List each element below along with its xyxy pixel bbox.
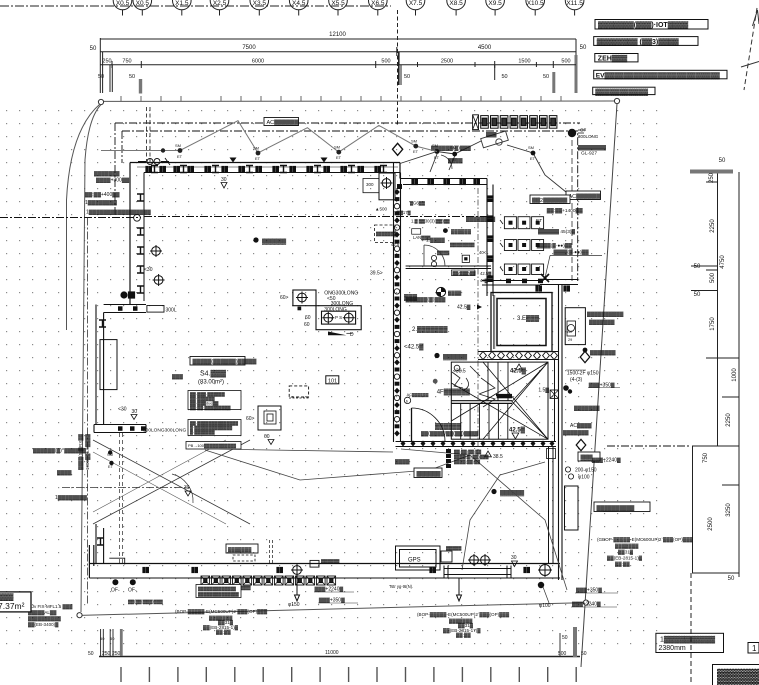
svg-text:OF-: OF- [111,588,120,594]
upper flight treads [488,362,508,401]
eave dash-dot outline outer [115,122,580,124]
front site line (top, with survey ticks) [101,100,617,102]
ceiling-mount dots [253,237,525,496]
room number tag 101 [326,376,339,385]
AC pipe label box (left) [264,118,299,127]
svg-text:50: 50 [719,158,726,164]
svg-text:X0.5: X0.5 [136,0,150,7]
svg-text:ET: ET [336,155,342,160]
svg-text:1▓▓▓▓▓▓▓▓: 1▓▓▓▓▓▓▓▓ [85,199,117,206]
grid bubble X11.5 [565,0,584,16]
svg-text:3250: 3250 [726,503,732,517]
svg-text:250: 250 [102,59,111,65]
svg-text:X6.5: X6.5 [371,0,385,7]
south site boundary [80,603,586,616]
dim extension verticals left [99,38,101,93]
svg-text:▓▓▓+2240▓: ▓▓▓+2240▓ [592,457,621,464]
ceiling dot grid field [4,110,668,655]
svg-text:4F▓▓▓▓▓▓: 4F▓▓▓▓▓▓ [437,389,471,396]
grid reference dash-dot line [0,5,391,7]
svg-text:ET: ET [413,149,419,154]
svg-text:▓▓▓▓(▓·●●)▓▓: ▓▓▓▓(▓·●●)▓▓ [537,242,573,249]
right dim vertical inner lower [692,446,694,573]
svg-text:(4-(3): (4-(3) [570,377,583,383]
svg-text:▓▓2▓▓▓▓▓▓: ▓▓2▓▓▓▓▓▓ [532,197,568,204]
svg-text:2250: 2250 [726,413,732,427]
svg-text:X5.5: X5.5 [331,0,345,7]
svg-text:2500: 2500 [441,59,453,65]
svg-text:▓▓(▓▓▓▓/▓▓(▓▓)▓▓▓▓: ▓▓(▓▓▓▓/▓▓(▓▓)▓▓▓▓ [421,430,479,437]
right column annotations [538,311,623,437]
stair up-direction diagonals [451,362,548,439]
dim extension vertical right (gray heavy) [575,39,577,55]
svg-text:50: 50 [90,46,97,52]
svg-text:300LONG300LONG: 300LONG300LONG [143,428,186,434]
sash spec group 2 [417,612,510,639]
outdoor unit rect right [565,486,579,530]
AC conduit zigzag [101,121,437,153]
svg-text:▓▓▓▓: ▓▓▓▓ [57,469,72,476]
svg-text:300LONG: 300LONG [578,134,599,139]
svg-text:φ100: φ100 [539,603,551,609]
insulated wall w/ diamonds (stair vs EV) [478,352,558,360]
svg-text:SM: SM [432,143,438,148]
svg-text:50: 50 [404,74,410,80]
porch door panel + wires [400,131,566,192]
svg-text:▓▓▓▓▓▓(▓)▓▓▓: ▓▓▓▓▓▓(▓)▓▓▓ [406,296,446,303]
east site boundary (slanted) [581,104,617,667]
grid bubble X5.5 [329,0,348,16]
svg-text:2380mm: 2380mm [659,645,686,652]
svg-text:GPS: GPS [408,558,421,564]
svg-text:101: 101 [328,378,337,384]
svg-text:X11.5: X11.5 [566,0,583,7]
corridor demising wall (x393-401) [394,163,401,443]
svg-text:1▓▓▓▓▓▓▓▓▓▓▓▓▓▓▓▓▓: 1▓▓▓▓▓▓▓▓▓▓▓▓▓▓▓▓▓ [86,209,151,216]
OF drains at south wall [112,579,135,585]
svg-text:300LONG: 300LONG [331,301,354,307]
svg-text:1.5▓: 1.5▓ [538,387,549,394]
svg-text:X4.5: X4.5 [292,0,306,7]
svg-text:7500: 7500 [242,45,256,51]
stair labels [404,294,527,439]
svg-text:EV▓▓▓▓▓▓▓▓▓▓▓▓▓▓▓▓▓▓▓▓▓▓▓▓: EV▓▓▓▓▓▓▓▓▓▓▓▓▓▓▓▓▓▓▓▓▓▓▓▓ [596,71,720,79]
dim line 12100 [100,38,576,40]
porch entry diamond [393,143,403,155]
fan coil cluster at demising wall top [363,173,395,200]
svg-text:500: 500 [381,59,390,65]
svg-text:42.5▓: 42.5▓ [510,368,527,375]
svg-text:50: 50 [694,292,701,298]
dashed ceiling access [289,386,308,397]
svg-text:50: 50 [694,264,701,270]
svg-text:42.5: 42.5 [391,242,400,247]
stair nosing dark bar [497,396,512,399]
svg-text:1500: 1500 [518,59,530,65]
svg-text:▓▓▓+2240▓: ▓▓▓+2240▓ [315,586,344,593]
bike rack label box [530,195,570,204]
svg-text:▓▓▓▓▓▓: ▓▓▓▓▓▓ [500,490,525,497]
svg-text:<42.5▓: <42.5▓ [404,344,424,351]
svg-text:50: 50 [581,651,587,657]
left wall jog at y304 [104,305,146,313]
svg-text:▓▓▓▓▓▓▓▓▓▓: ▓▓▓▓▓▓▓▓▓▓ [587,311,624,318]
pump closet [565,308,585,345]
svg-text:ET: ET [434,155,440,160]
pipe chase below corridor [547,447,556,564]
svg-text:▓▓▓▓▓▓: ▓▓▓▓▓▓ [262,238,287,245]
fire spread dashed across bottom [62,487,190,489]
svg-text:▓▓▓: ▓▓▓ [0,593,14,601]
grid bubble X4.5 [289,0,308,16]
svg-text:39.5>: 39.5> [370,271,383,277]
svg-text:▓▓▓▓▓▓▓▓▓▓: ▓▓▓▓▓▓▓▓▓▓ [597,505,635,512]
svg-text:42.5▓: 42.5▓ [457,304,471,311]
droppers below dim line [109,65,111,92]
svg-text:200-φ150: 200-φ150 [575,468,597,474]
right dim labels (rotated) [694,158,738,582]
svg-text:SM: SM [175,143,181,148]
north arrow / benchmark diagonal top-right [741,8,759,90]
bottom exterior wall [89,563,560,565]
svg-text:X8.5: X8.5 [449,0,463,7]
grid bubble X7.5 [406,0,425,16]
roof drain triangles on top wall [230,158,237,163]
svg-text:60: 60 [304,322,310,328]
sub 50 labels under dim line [98,74,549,80]
lower flight treads [461,403,508,439]
note box EV pit [594,70,727,79]
top wall right section (porch back wall) [400,179,487,185]
left wall stub below entrance [96,524,104,564]
ceiling access dashed box [226,540,273,563]
top exterior wall (x137-400) [130,162,400,164]
door hardware blobs at wall base [121,292,127,298]
svg-text:50: 50 [98,74,104,80]
svg-text:300: 300 [366,182,374,187]
grid bubble X8.5 [447,0,466,16]
svg-text:ZEH▓▓▓: ZEH▓▓▓ [598,55,628,63]
svg-text:X1.5: X1.5 [175,0,189,7]
svg-text:50: 50 [100,636,105,641]
ceiling access dashed (right) [375,225,397,243]
svg-text:S4.▓▓▓: S4.▓▓▓ [200,370,227,378]
EV block north wall [482,281,540,286]
svg-text:X2.5: X2.5 [213,0,227,7]
corridor door arcs [424,245,445,266]
svg-text:#67: #67 [567,330,573,334]
section dash line through stairwell [477,188,479,455]
svg-text:▓▓▓▓▓▓▓: ▓▓▓▓▓▓▓ [94,170,120,177]
svg-text:▓▓▓+2240▓: ▓▓▓+2240▓ [572,601,601,608]
bottom dimension line [99,627,580,657]
right foundation labels [539,587,602,610]
svg-text:▓▓▓▓▓▓▓▓▓▓▓: ▓▓▓▓▓▓▓▓▓▓▓ [595,88,648,96]
demising wall fittings column [394,184,402,436]
svg-text:29: 29 [568,338,572,342]
left lower annotation [33,447,114,501]
survey point circle top-left [98,99,103,104]
store room name [198,370,227,386]
fire line vertical left [87,218,89,605]
ceiling fixture box A [293,290,361,335]
survey point circle top-right [614,98,619,103]
svg-text:SM: SM [411,139,417,144]
svg-text:GL-927: GL-927 [581,151,597,157]
svg-text:OF: OF [580,128,587,133]
canopy hanger dashed pair top-left [147,107,151,163]
sliding gate rails [444,566,511,578]
small ref box "1" [748,643,759,654]
grid bubble X0.3 [113,0,132,16]
svg-text:500: 500 [561,59,570,65]
svg-text:6000: 6000 [252,59,264,65]
svg-text:OF-: OF- [128,588,137,594]
svg-text:300L: 300L [166,308,177,314]
svg-text:▓▓▓▓▓▓: ▓▓▓▓▓▓ [443,354,468,361]
svg-text:SM: SM [334,145,340,150]
stairwell room box [451,362,548,439]
downspout mid [291,564,303,601]
dim line 250/750/6000/500 | 2500/1500/500 [100,64,576,66]
svg-text:ET: ET [177,154,183,159]
stair landing edge [451,401,512,404]
grid bubble X3.5 [250,0,269,16]
svg-text:D: D [350,332,354,338]
right lower spec block [597,537,693,568]
svg-text:38.5: 38.5 [493,454,503,460]
bubble labels (cut off at top) [116,0,583,7]
shop outdoor unit note [594,502,650,512]
svg-text:X0.5: X0.5 [116,0,130,7]
annex top wall [540,280,578,285]
svg-text:AC▓▓▓▓▓▓: AC▓▓▓▓▓▓ [569,193,602,200]
svg-text:X9.5: X9.5 [488,0,502,7]
svg-text:▓▓▓▓▓▓▓▓: ▓▓▓▓▓▓▓▓ [466,216,496,223]
bike rack row bottom (along south wall) [201,576,336,585]
svg-text:50: 50 [110,636,115,641]
svg-text:AC▓▓▓▓▓▓: AC▓▓▓▓▓▓ [267,119,300,126]
EV shaft walls [491,293,552,352]
survey point circle bottom-left [77,613,82,618]
svg-text:7.37m²: 7.37m² [0,601,25,611]
right exterior wall of annex [559,284,563,580]
svg-text:▓▓▓▓▓▓▓(▓▓▓)·IOT▓▓▓▓: ▓▓▓▓▓▓▓(▓▓▓)·IOT▓▓▓▓ [598,21,689,29]
svg-text:1▓▓▓▓▓▓▓▓: 1▓▓▓▓▓▓▓▓ [55,494,87,501]
svg-text:φ100: φ100 [578,475,590,481]
svg-text:4500: 4500 [478,45,492,51]
next sheet grid stubs (bottom ticks) [121,667,576,682]
exterior wall spec title (cut) [713,665,759,685]
svg-text:▓▓▓▓: ▓▓▓▓ [717,668,759,685]
svg-text:50: 50 [728,576,735,582]
svg-text:1500-2F φ150: 1500-2F φ150 [567,371,599,377]
svg-text:1000: 1000 [732,368,738,382]
svg-text:2250: 2250 [710,219,716,233]
svg-text:AC▓▓▓▓: AC▓▓▓▓ [570,422,592,429]
svg-text:60: 60 [305,315,311,321]
meter niche [441,551,452,562]
svg-text:▓▓▓▓▓▓: ▓▓▓▓▓▓ [417,471,442,478]
west road edge curve [67,104,101,330]
right dim vertical outer [738,172,740,577]
DS fixture left-centre [258,406,281,430]
svg-text:▓▓▓▓▓▓▓: ▓▓▓▓▓▓▓ [590,349,616,356]
svg-text:▓▓▓+350▓: ▓▓▓+350▓ [319,597,345,604]
shop front window (left) [100,340,117,390]
step down at x400 [399,163,401,179]
bike rack row top [473,115,557,130]
svg-text:ET: ET [536,218,542,224]
svg-text:▓▓▓+350▓: ▓▓▓+350▓ [576,587,602,594]
wall mount crosshairs left [150,245,162,257]
side tag boxed [414,468,442,478]
dashed extension below [690,573,692,685]
fire-spread line left (dash-dot to wall) [0,217,490,218]
shutter note smudge [128,584,413,605]
svg-text:50: 50 [562,635,568,641]
note box smart lock [595,20,708,30]
left wall sill at y424-433 [94,425,146,433]
left margin notes [85,170,151,216]
svg-text:SM: SM [450,145,456,150]
svg-text:▓▓:▓▓+1400▓▓: ▓▓:▓▓+1400▓▓ [547,207,583,214]
washroom divider wall [406,266,491,269]
GB spec note far left [18,604,73,628]
svg-text:1: 1 [752,644,757,653]
svg-text:60>: 60> [280,295,289,301]
svg-text:50: 50 [501,74,507,80]
svg-text:11000: 11000 [325,650,339,656]
right dim vertical inner upper [717,172,719,446]
svg-text:X10.5: X10.5 [527,0,544,7]
svg-text:50: 50 [580,45,587,51]
store area tag box [0,592,31,612]
svg-text:▓▓▓▓▓▓▓▓: ▓▓▓▓▓▓▓▓ [578,144,606,151]
svg-text:X3.5: X3.5 [253,0,267,7]
svg-text:50: 50 [88,651,94,657]
svg-text:X7.5: X7.5 [409,0,423,7]
grid bubble X6.5 [369,0,388,16]
ceiling height note box [656,633,724,652]
store spec box 2 [188,420,241,436]
grid bubble X2.5 [210,0,229,16]
svg-text:φ150: φ150 [288,602,300,608]
drain box on wall [310,560,319,567]
store spec box 3 [186,442,241,450]
grid bubble X0.5 [133,0,152,16]
svg-text:2500: 2500 [708,517,714,531]
extra gray dot + circle tag by door [433,379,438,384]
svg-text:42.5▓: 42.5▓ [509,427,526,434]
note box ZEH [595,54,638,62]
svg-text:<38.5: <38.5 [453,369,466,375]
svg-text:<30: <30 [144,267,153,273]
svg-text:750: 750 [122,59,131,65]
svg-text:500: 500 [710,272,716,283]
note box tokyo zero emi [594,37,698,46]
svg-text:SM: SM [253,146,259,151]
kyouyou tag + levels right [578,452,600,461]
left exterior wall lower (x96-106) [96,305,104,425]
quadrant ceiling light [436,287,462,296]
stair shaft left wall [487,179,493,297]
svg-text:50: 50 [543,74,549,80]
svg-text:30: 30 [511,555,517,561]
svg-text:ET: ET [452,157,458,162]
top-left vent symbol [138,158,170,165]
svg-text:▓▓▓▓▓▓▓: ▓▓▓▓▓▓▓ [563,429,589,436]
svg-text:12100: 12100 [329,32,346,38]
svg-text:40<: 40< [479,250,487,255]
svg-text:▓▓▓▓▓▓▓: ▓▓▓▓▓▓▓ [589,319,615,326]
electric meter bank [500,217,544,275]
vent duct box on jog [147,306,164,313]
downpipe arrow right [457,578,462,601]
svg-text:▓▓▓▓▓▓: ▓▓▓▓▓▓ [435,423,462,430]
svg-text:▓▓▓: ▓▓▓ [486,131,497,138]
right dim ticks [706,181,718,183]
svg-text:3.E▓▓▓: 3.E▓▓▓ [517,315,540,322]
svg-text:▓▓▓▓(▓·●●)▓▓: ▓▓▓▓(▓·●●)▓▓ [554,249,590,256]
sash spec group 1 [175,609,268,636]
cleanout right [538,563,552,577]
svg-text:▓▓▓▓▓▓▓▓ (▓▓3)▓▓▓▓: ▓▓▓▓▓▓▓▓ (▓▓3)▓▓▓▓ [597,38,680,46]
grid bubble X9.5 [486,0,505,16]
OF drain at top right [568,128,599,140]
svg-text:ET: ET [255,156,261,161]
west site boundary (slanted) [81,105,101,612]
left rotated dim note [78,433,91,470]
riser conduit tangle by stairs [452,366,480,390]
store spec box 1 [188,391,241,411]
svg-text:300LONG: 300LONG [324,307,347,313]
svg-text:Tstr yg-t6(N).: Tstr yg-t6(N). [389,584,413,589]
svg-text:P S: P S [335,315,342,320]
grid bubble X1.5 [173,0,192,16]
survey point circle bottom-right [583,600,588,605]
svg-text:500: 500 [558,651,567,657]
left exterior wall upper (x130-144) [129,163,131,306]
svg-text:(83.00m²): (83.00m²) [198,380,224,386]
svg-text:▓▓▓▓▓(▓▓▓▓▓▓)▓▓▓▓▓: ▓▓▓▓▓(▓▓▓▓▓▓)▓▓▓▓▓ [193,358,257,365]
shopfront opening with shutter X (entrance) [93,440,250,524]
svg-text:30: 30 [184,485,190,491]
foundation level notes mid [315,586,346,604]
svg-text:50: 50 [129,74,135,80]
svg-text:<30: <30 [118,407,127,413]
svg-text:4750: 4750 [720,255,726,269]
svg-text:250: 250 [709,172,715,183]
svg-text:▓▓▓: ▓▓▓ [172,373,183,380]
svg-text:1750: 1750 [710,317,716,331]
svg-text:SM: SM [528,145,534,150]
svg-text:▲500: ▲500 [375,207,387,212]
svg-text:250: 250 [112,651,121,657]
dim line 7500 / 4500 [100,51,576,53]
conduit feed lines across store [205,449,567,590]
stair right parallel wall [554,360,556,442]
bike space note box [196,585,241,598]
entry tactile squares + notes [446,449,451,468]
corridor entry door leaf + swing [411,408,413,442]
svg-text:ET: ET [530,156,536,161]
top heavy tick (wall level) [690,170,733,174]
grid bubble X10.5 [526,0,545,16]
level markers left wall [118,177,227,496]
svg-text:▓▓▓▓+300▓▓: ▓▓▓▓+300▓▓ [96,177,129,184]
svg-text:▓▓:▓▓+400▓▓: ▓▓:▓▓+400▓▓ [85,191,120,198]
